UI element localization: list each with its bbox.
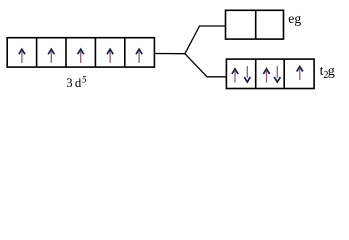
electron arrow up, 3d box 5 xyxy=(136,49,142,63)
electron arrow up, 3d box 3 xyxy=(78,49,84,63)
wire: diagonal down to t2g level xyxy=(185,54,207,77)
3d orbital box row (5 degenerate boxes) xyxy=(7,38,154,67)
electron arrow up, 3d box 2 xyxy=(48,49,54,63)
eg orbital box row (2 empty boxes) xyxy=(226,10,284,39)
label 3d5 xyxy=(66,76,87,91)
electron arrow up, 3d box 4 xyxy=(107,49,113,63)
svg-text:5: 5 xyxy=(82,76,87,86)
wire: horizontal from 3d row to branch vertex xyxy=(155,53,185,55)
label t2g xyxy=(320,64,335,81)
wire: horizontal into t2g row xyxy=(206,76,226,78)
svg-text:3: 3 xyxy=(66,76,72,90)
svg-text:g: g xyxy=(328,64,335,79)
electron arrow up, 3d box 1 xyxy=(19,49,25,63)
electron pair arrows up+down, t2g box 1 xyxy=(232,66,251,83)
wire: horizontal into eg row xyxy=(199,25,226,27)
electron arrow up, t2g box 3 xyxy=(297,67,303,81)
wire: diagonal up to eg level xyxy=(185,26,200,54)
t2g orbital box row (3 boxes) xyxy=(226,59,314,88)
svg-text:eg: eg xyxy=(288,11,301,26)
svg-text:d: d xyxy=(75,76,82,90)
electron pair arrows up+down, t2g box 2 xyxy=(263,66,280,83)
